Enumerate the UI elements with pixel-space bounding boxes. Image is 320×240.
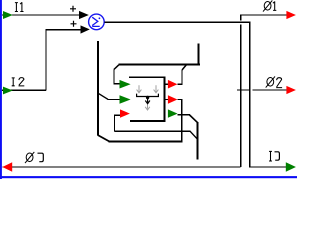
wire vertical down to D apex (181, 70, 182, 85)
wire vertical right outer x249.5 down (249, 22, 250, 168)
node port A green arrow (120, 80, 131, 89)
wire diagonal jog to B feed (98, 93, 108, 99)
op-amp summer sigma glyph (92, 17, 100, 26)
star symbol gray down arrow (145, 105, 150, 111)
wire bottom horizontal to I3 (250, 166, 287, 167)
star symbol gray arrow left (137, 85, 142, 93)
star symbol black bar with end ticks (137, 94, 159, 97)
wire F horizontal from apex (177, 114, 190, 115)
node phi2 label (266, 76, 282, 87)
node I2 input green arrow (3, 87, 13, 95)
wire C vertical up (114, 115, 115, 132)
wire diagonal from F wire down (190, 115, 198, 123)
wire E feed stub (165, 99, 168, 100)
wire summer input 2 horizontal (45, 29, 81, 30)
node I3 output green arrow (286, 162, 296, 172)
node I1 label (15, 2, 24, 11)
wire thick bottom horizontal (109, 140, 183, 142)
wire vertical from I2 up to summer (45, 29, 46, 90)
node plus sign 2 (71, 21, 77, 27)
wire vertical down to A feed (113, 69, 114, 84)
node port E red arrow (168, 95, 178, 104)
wire D feed stub (165, 84, 168, 85)
op-amp summer U1 circle (89, 14, 105, 30)
node phi1 output red arrow (286, 11, 296, 19)
wire D apex horizontal (177, 84, 182, 85)
wire diagonal inner line down to right vertical (190, 131, 197, 139)
star symbol black down arrow (145, 98, 150, 104)
wire diagonal bottom-left jog (98, 135, 109, 141)
star symbol center dot (146, 96, 149, 99)
transistor block box (3-phase star block) (129, 77, 164, 121)
node port F green arrow (168, 109, 178, 117)
wire thick top-right vertical open end (198, 43, 200, 65)
star symbol gray arrow right (154, 85, 159, 93)
node phi2 output red arrow (286, 86, 296, 94)
node I3 label mirrored (269, 151, 279, 161)
wire phi1 horizontal (240, 14, 287, 15)
wire phi2 stub and horizontal (237, 89, 251, 90)
wire summer output to right (105, 22, 251, 23)
node I1 input green arrow (3, 11, 13, 19)
wire I1 to summer (2, 14, 80, 15)
node port C red arrow (120, 109, 130, 117)
wire A feed horizontal (113, 83, 120, 84)
wire vertical right inner x240.5 lower segment (240, 25, 241, 167)
node phi3 label mirrored (25, 152, 43, 163)
wire inner bottom horizontal E to C (114, 131, 190, 132)
node port B green arrow (120, 95, 131, 104)
wire bottom horizontal to phi3 (3, 166, 241, 167)
node port D red arrow (168, 80, 178, 89)
node plus sign 1 (70, 6, 76, 12)
node phi1 label (263, 0, 276, 11)
node phi3 output red arrow pointing left (2, 162, 12, 171)
wire E apex horizontal to vertical (177, 99, 182, 100)
wire arrowhead into summer input 2 (81, 25, 90, 33)
wire vertical right inner x240.5 upper segment (240, 14, 241, 20)
wire left blue boundary line (0, 0, 2, 179)
wire B feed horizontal (108, 99, 120, 100)
wire diagonal top-left down (114, 65, 119, 70)
wire bottom blue boundary line (0, 176, 297, 178)
wire I2 horizontal (2, 90, 46, 91)
wire diagonal to D collector (182, 65, 186, 70)
wire arrowhead into summer input 1 (79, 11, 89, 19)
wire thick top horizontal (118, 64, 200, 66)
node I2 label (12, 78, 15, 86)
wire thick left vertical frame (97, 41, 99, 136)
wire C feed horizontal (114, 115, 121, 116)
wire E vertical down (181, 99, 182, 142)
wire right vertical from F down to open end (197, 122, 199, 159)
